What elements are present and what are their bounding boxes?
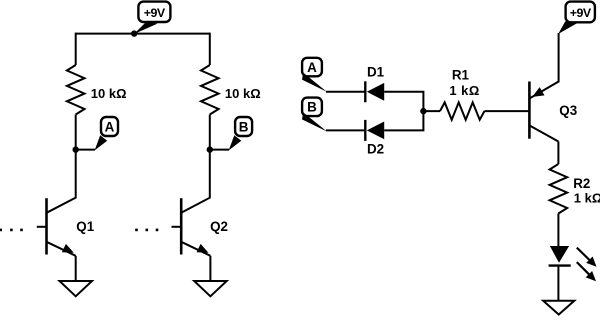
wire: +9V rail (left circuit) [76, 33, 210, 35]
svg-text:+9V: +9V [570, 6, 592, 20]
node A flag (right circuit) [302, 58, 327, 92]
wire: LED to ground [557, 266, 559, 301]
svg-text:1 kΩ: 1 kΩ [574, 191, 600, 206]
svg-text:B: B [239, 119, 249, 134]
power +9V flag (left circuit) [134, 2, 170, 34]
ground (right circuit) [543, 301, 574, 315]
wire: R1 to Q3 base [484, 110, 529, 112]
svg-text:Q2: Q2 [210, 219, 228, 234]
node B flag (right circuit) [302, 98, 327, 132]
diode D1 [365, 65, 384, 103]
junction dot node B [207, 146, 213, 152]
wire: Q2 emitter to ground [209, 256, 211, 281]
wire: junction to R1 [423, 110, 440, 112]
resistor R2 1 kOhm [550, 164, 600, 214]
node B flag (left circuit) [210, 117, 252, 150]
ground (under Q1) [60, 281, 93, 296]
transistor Q2 [172, 198, 228, 256]
svg-text:1 kΩ: 1 kΩ [449, 83, 480, 98]
wire: rail to R right [209, 33, 211, 65]
wire: Q1 emitter to ground [75, 256, 77, 281]
wire: D1 to junction [384, 92, 423, 111]
svg-text:10 kΩ: 10 kΩ [91, 86, 127, 101]
resistor 10 kOhm (left) [67, 65, 127, 115]
power +9V flag (right circuit) [558, 2, 595, 34]
wire: node A to D1 [326, 91, 365, 93]
ground (under Q2) [194, 281, 227, 296]
svg-text:10 kΩ: 10 kΩ [225, 86, 261, 101]
wire: R left to node A [75, 115, 77, 150]
wire: node A to Q1 collector [47, 150, 76, 213]
junction dot on rail [131, 30, 137, 36]
svg-text:A: A [307, 60, 317, 75]
svg-text:B: B [307, 100, 317, 115]
junction dot (diode output node) [420, 108, 426, 114]
wire: node B to D2 [326, 129, 365, 131]
svg-text:R2: R2 [573, 176, 590, 191]
resistor R1 1 kOhm [440, 68, 484, 120]
wire: R2 to LED [557, 214, 559, 247]
wire: Q3 collector to R2 [557, 142, 559, 165]
svg-text:A: A [105, 119, 115, 134]
svg-text:Q1: Q1 [76, 219, 94, 234]
transistor Q3 [529, 82, 577, 142]
svg-text:Q3: Q3 [559, 103, 577, 118]
wire: R right to node B [209, 115, 211, 150]
svg-text:R1: R1 [452, 68, 470, 83]
svg-text:D1: D1 [367, 65, 385, 80]
diode D2 [365, 120, 384, 157]
ellipsis input dots (Q2 base) [135, 229, 158, 232]
svg-text:+9V: +9V [144, 6, 166, 20]
LED [549, 246, 597, 281]
transistor Q1 [37, 198, 95, 256]
wire: rail to R left [75, 33, 77, 65]
ellipsis input dots (Q1 base) [0, 229, 23, 232]
wire: +9V to Q3 emitter [529, 33, 558, 99]
wire: D2 to junction [384, 111, 423, 130]
wire: node B to Q2 collector [181, 150, 210, 213]
node A flag (left circuit) [76, 117, 118, 150]
resistor 10 kOhm (right) [201, 65, 261, 115]
svg-text:D2: D2 [367, 142, 384, 157]
junction dot node A [73, 146, 79, 152]
